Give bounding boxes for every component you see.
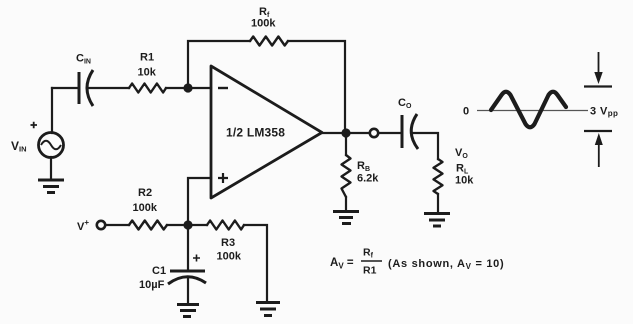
svg-text:V+: V+ — [77, 218, 89, 233]
svg-text:CO: CO — [398, 97, 412, 110]
svg-text:R2: R2 — [138, 187, 152, 199]
svg-text:100k: 100k — [217, 251, 242, 263]
svg-text:R3: R3 — [221, 237, 235, 249]
svg-text:1/2 LM358: 1/2 LM358 — [226, 126, 285, 140]
svg-text:0: 0 — [463, 106, 469, 118]
svg-text:(As shown, AV = 10): (As shown, AV = 10) — [388, 258, 504, 271]
svg-text:R1: R1 — [140, 52, 154, 64]
svg-text:10k: 10k — [455, 175, 474, 187]
svg-text:Rf: Rf — [363, 247, 374, 260]
svg-text:3 Vpp: 3 Vpp — [590, 106, 618, 119]
svg-text:C1: C1 — [152, 265, 166, 277]
svg-text:10k: 10k — [138, 67, 157, 79]
svg-text:6.2k: 6.2k — [357, 173, 379, 185]
svg-text:100k: 100k — [133, 202, 158, 214]
svg-text:VIN: VIN — [11, 139, 27, 154]
svg-text:CIN: CIN — [76, 53, 91, 66]
svg-text:R1: R1 — [363, 265, 377, 277]
svg-text:10µF: 10µF — [139, 279, 165, 291]
svg-text:VO: VO — [455, 147, 468, 160]
svg-text:100k: 100k — [251, 18, 276, 30]
svg-text:AV =: AV = — [330, 257, 354, 271]
svg-text:RB: RB — [357, 160, 370, 173]
